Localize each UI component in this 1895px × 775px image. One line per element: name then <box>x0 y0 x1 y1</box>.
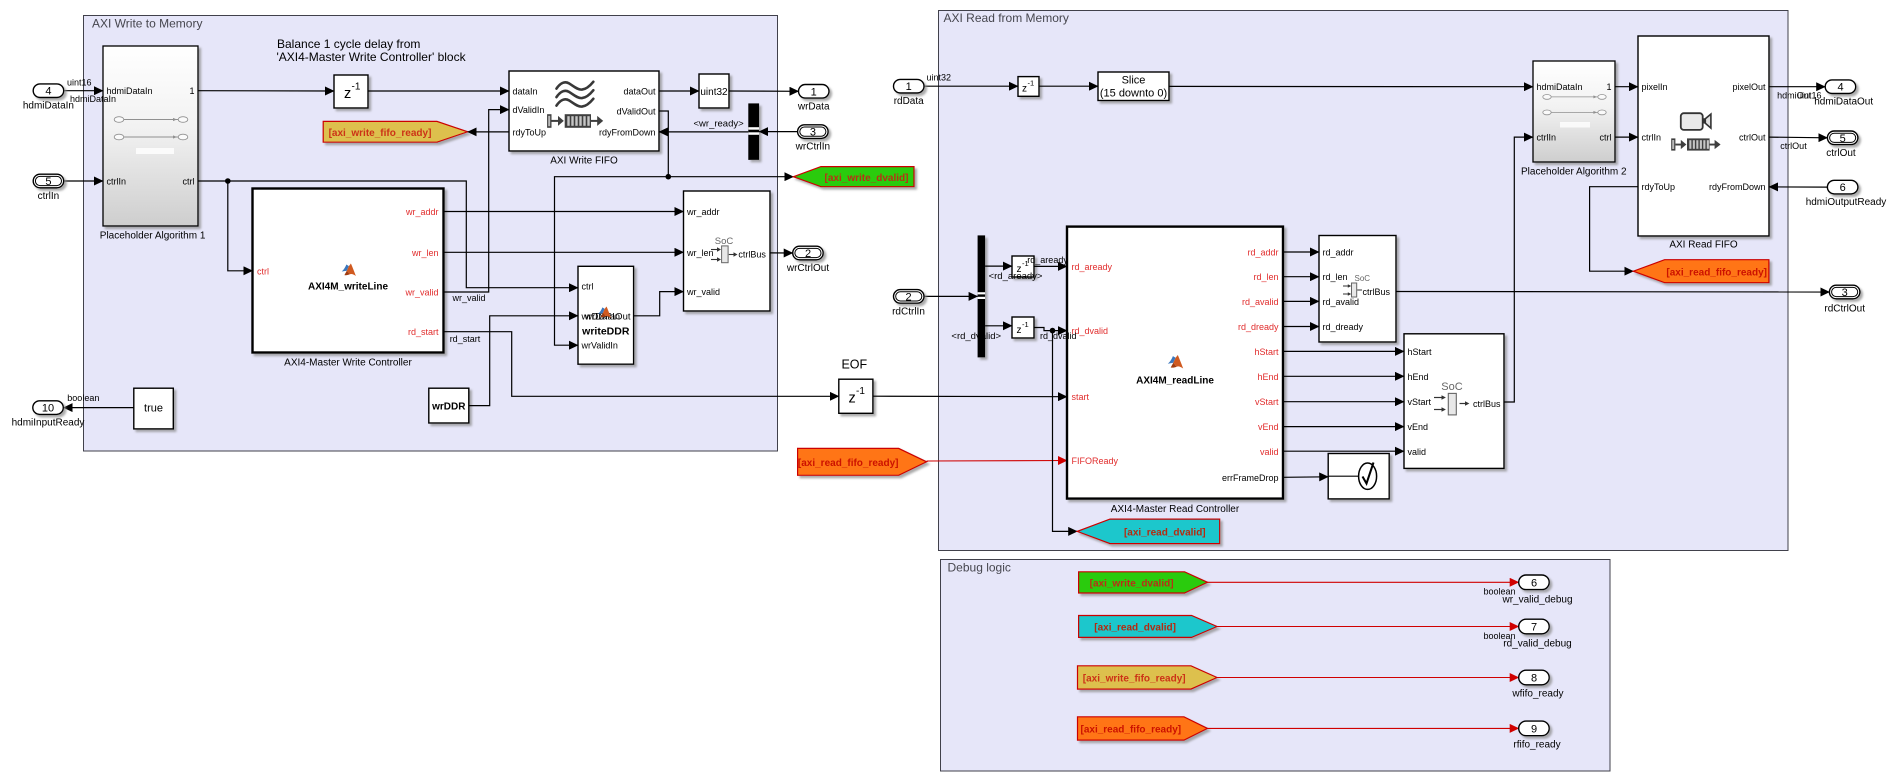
svg-text:4: 4 <box>45 86 51 98</box>
svg-text:valid: valid <box>1260 447 1279 457</box>
svg-text:rd_len: rd_len <box>1323 272 1348 282</box>
bus creator wrCtrl <box>684 191 771 311</box>
svg-text:AXI4-Master Write Controller: AXI4-Master Write Controller <box>284 357 412 368</box>
svg-text:[axi_write_fifo_ready]: [axi_write_fifo_ready] <box>1083 674 1186 685</box>
outport 7 rd_valid_debug <box>1503 619 1571 649</box>
svg-text:wr_valid_debug: wr_valid_debug <box>1501 594 1572 605</box>
outport 10 hdmiInputReady <box>12 401 85 429</box>
outport 8 wfifo_ready <box>1511 670 1563 699</box>
wire rd_addr to bus creator2 <box>1283 251 1319 253</box>
junction rd_dvalid <box>1050 328 1056 334</box>
svg-text:dValidOut: dValidOut <box>617 107 656 117</box>
label rd_aready selector <box>989 271 1043 282</box>
svg-text:rd_avalid: rd_avalid <box>1242 297 1279 307</box>
svg-text:dataIn: dataIn <box>513 87 538 97</box>
svg-text:rd_aready: rd_aready <box>1027 255 1068 265</box>
wire Placeholder1 out1 to Delay1 <box>198 90 334 92</box>
svg-text:true: true <box>144 403 163 415</box>
svg-text:rd_addr: rd_addr <box>1323 247 1354 257</box>
wire vEnd to bus creator3 <box>1283 426 1404 428</box>
svg-text:8: 8 <box>1531 673 1537 685</box>
svg-text:Debug logic: Debug logic <box>948 561 1011 575</box>
block writeDDR <box>578 266 634 364</box>
svg-text:wr_addr: wr_addr <box>405 207 439 217</box>
svg-text:AXI Read FIFO: AXI Read FIFO <box>1669 239 1738 250</box>
svg-text:z: z <box>1022 84 1027 95</box>
svg-text:Placeholder Algorithm 1: Placeholder Algorithm 1 <box>100 230 206 241</box>
svg-text:2: 2 <box>805 248 811 260</box>
area Debug logic <box>941 560 1611 772</box>
svg-text:ctrlIn: ctrlIn <box>107 177 127 187</box>
svg-text:6: 6 <box>1840 182 1846 194</box>
svg-text:wrDDR: wrDDR <box>431 402 466 413</box>
label rd_dvalid selector <box>951 331 1001 342</box>
svg-text:hEnd: hEnd <box>1408 372 1429 382</box>
wire FIFO ctrlOut to outport5 <box>1769 136 1827 139</box>
wire errFrameDrop to check block <box>1283 476 1328 479</box>
svg-text:rd_dready: rd_dready <box>1238 322 1279 332</box>
svg-text:10: 10 <box>42 403 54 415</box>
goto tag [axi_read_fifo_ready] left <box>798 448 927 475</box>
wire Z1b to readLine rd_dvalid <box>1034 328 1067 331</box>
inport 3 wrCtrlIn <box>795 125 830 153</box>
from tag [axi_write_fifo_ready] debug <box>1078 666 1218 689</box>
wire delay to Slice <box>1039 85 1098 87</box>
svg-text:2: 2 <box>905 291 911 303</box>
svg-text:vStart: vStart <box>1255 397 1279 407</box>
bus creator rdCtrl <box>1319 236 1396 343</box>
label uint32 (read) <box>927 72 952 82</box>
wire hEnd to bus creator3 <box>1283 375 1404 377</box>
svg-text:rd_dready: rd_dready <box>1323 322 1364 332</box>
goto wrDDR <box>429 388 469 423</box>
label rd_dvalid (black) <box>1040 331 1077 341</box>
svg-text:SoC: SoC <box>1441 381 1462 393</box>
svg-text:[axi_read_fifo_ready]: [axi_read_fifo_ready] <box>1666 267 1767 278</box>
block Placeholder Algorithm 2 <box>1521 61 1627 178</box>
svg-text:FIFOReady: FIFOReady <box>1072 456 1119 466</box>
goto tag [axi_write_fifo_ready] <box>323 121 468 142</box>
svg-text:hStart: hStart <box>1254 347 1279 357</box>
wire ctrl branch to writeDDR ctrl <box>228 181 578 288</box>
svg-text:wr_valid: wr_valid <box>452 293 486 303</box>
delay EOF z-1 <box>839 379 873 413</box>
svg-text:vEnd: vEnd <box>1258 422 1279 432</box>
svg-text:wfifo_ready: wfifo_ready <box>1511 689 1563 700</box>
delay z-1 (read, small) <box>1018 77 1039 97</box>
label ctrlOut signal <box>1780 141 1807 151</box>
svg-text:SoC: SoC <box>1355 274 1371 283</box>
svg-text:uint16: uint16 <box>67 78 92 88</box>
svg-text:vEnd: vEnd <box>1408 422 1429 432</box>
svg-text:ctrlBus: ctrlBus <box>1473 399 1501 409</box>
area AXI Write to Memory <box>84 16 778 452</box>
svg-text:dValidIn: dValidIn <box>513 105 545 115</box>
wire rd_dready to bus creator2 <box>1283 326 1319 328</box>
svg-text:ctrl: ctrl <box>1600 133 1612 143</box>
svg-text:<rd_dvalid>: <rd_dvalid> <box>951 331 1001 342</box>
svg-text:-1: -1 <box>1028 79 1035 88</box>
svg-text:<rd_aready>: <rd_aready> <box>989 271 1043 282</box>
label wr_ready <box>694 119 745 130</box>
svg-text:AXI Write to Memory: AXI Write to Memory <box>92 17 202 31</box>
svg-text:AXI Read from Memory: AXI Read from Memory <box>944 11 1069 25</box>
svg-text:wrCtrlOut: wrCtrlOut <box>786 263 829 274</box>
svg-text:uint32: uint32 <box>927 72 952 82</box>
svg-text:vStart: vStart <box>1408 397 1432 407</box>
junction dvalid <box>666 174 672 180</box>
label boolean wr <box>1484 587 1516 597</box>
inport 5 ctrlIn <box>33 174 64 202</box>
delay Z-1 (balance) <box>334 75 368 108</box>
wire inport1 rdData to delay <box>924 85 1018 87</box>
wire bus creator2 to outport3 rdCtrlOut <box>1396 291 1829 294</box>
svg-text:Balance 1 cycle delay from: Balance 1 cycle delay from <box>277 37 420 51</box>
svg-text:ctrlIn: ctrlIn <box>1537 133 1557 143</box>
bus creator vid <box>1404 334 1504 469</box>
svg-text:wr_valid: wr_valid <box>686 287 720 297</box>
svg-text:ctrlBus: ctrlBus <box>738 250 766 260</box>
svg-text:rd_start: rd_start <box>450 334 481 344</box>
svg-text:errFrameDrop: errFrameDrop <box>1222 473 1279 483</box>
svg-text:ctrlBus: ctrlBus <box>1363 287 1391 297</box>
inport 4 hdmiDataIn <box>23 84 74 112</box>
check block errFrameDrop <box>1328 454 1389 499</box>
svg-text:1: 1 <box>811 86 817 98</box>
svg-text:rdCtrlOut: rdCtrlOut <box>1824 304 1865 315</box>
svg-text:AXI4-Master Read Controller: AXI4-Master Read Controller <box>1111 504 1240 515</box>
wire FIFO rdyToUp to tag <box>468 131 509 133</box>
wire to outport6 (red) <box>1208 581 1519 583</box>
wire Placeholder2 out1 to FIFO pixelIn <box>1615 86 1638 88</box>
svg-text:wrValidIn: wrValidIn <box>581 341 618 351</box>
svg-text:5: 5 <box>45 176 51 188</box>
svg-text:rd_addr: rd_addr <box>1247 248 1278 258</box>
svg-text:ctrl: ctrl <box>183 177 195 187</box>
junction ctrl <box>225 178 231 184</box>
svg-text:rd_dvalid: rd_dvalid <box>1072 326 1109 336</box>
wire Z1a to readLine rd_aready <box>1034 265 1067 267</box>
constant true <box>134 388 174 429</box>
outport 9 rfifo_ready <box>1513 721 1560 750</box>
svg-text:rdCtrlIn: rdCtrlIn <box>892 306 925 317</box>
svg-text:z: z <box>344 86 351 102</box>
svg-text:-1: -1 <box>352 82 361 93</box>
svg-text:[axi_read_dvalid]: [axi_read_dvalid] <box>1124 528 1206 539</box>
svg-text:EOF: EOF <box>841 357 867 371</box>
wire wr_valid to FIFO dValidIn <box>444 110 510 292</box>
svg-text:6: 6 <box>1531 577 1537 589</box>
svg-text:boolean: boolean <box>67 393 99 403</box>
block uint32 conversion <box>699 74 729 108</box>
svg-text:hdmiDataOut: hdmiDataOut <box>1814 97 1873 108</box>
svg-text:ctrlOut: ctrlOut <box>1739 133 1766 143</box>
svg-text:AXI Write FIFO: AXI Write FIFO <box>550 156 618 167</box>
svg-text:rdyToUp: rdyToUp <box>1642 182 1676 192</box>
wire writeDDR out to bus creator wr_valid <box>634 292 684 316</box>
svg-text:7: 7 <box>1531 622 1537 634</box>
svg-text:<wr_ready>: <wr_ready> <box>694 119 745 130</box>
svg-text:ctrl: ctrl <box>582 282 594 292</box>
svg-text:hdmiInputReady: hdmiInputReady <box>12 418 85 429</box>
svg-text:rd_avalid: rd_avalid <box>1323 297 1360 307</box>
svg-text:[axi_write_dvalid]: [axi_write_dvalid] <box>825 173 909 184</box>
svg-text:4: 4 <box>1837 82 1843 94</box>
svg-text:1: 1 <box>906 81 912 93</box>
svg-text:dataOut: dataOut <box>623 87 656 97</box>
wire FIFO dataOut to uint32 <box>659 90 699 92</box>
goto tag [axi_write_dvalid] <box>793 167 914 187</box>
svg-text:-1: -1 <box>856 386 865 397</box>
svg-text:5: 5 <box>1840 133 1846 145</box>
wire EOF delay to readLine start <box>873 395 1067 398</box>
svg-text:hdmiDataIn: hdmiDataIn <box>23 101 74 112</box>
wire branch dvalid to writeDDR wrValidIn <box>555 177 669 346</box>
svg-text:rdyFromDown: rdyFromDown <box>1709 182 1766 192</box>
wire inport2 rdCtrlIn to bus selector <box>924 295 978 297</box>
svg-text:pixelIn: pixelIn <box>1642 82 1668 92</box>
wire inport3 to bus selector <box>759 131 798 133</box>
svg-text:AXI4M_writeLine: AXI4M_writeLine <box>308 282 388 293</box>
svg-text:rdyFromDown: rdyFromDown <box>599 127 656 137</box>
block AXI4-Master Write Controller <box>253 189 444 369</box>
wire hStart to bus creator3 <box>1283 350 1404 352</box>
wire rd_avalid to bus creator2 <box>1283 300 1319 302</box>
label uint16 <box>67 78 92 88</box>
wire ctrl junction to AXI4M ctrl <box>198 181 253 271</box>
block Slice <box>1098 72 1169 101</box>
svg-text:9: 9 <box>1531 723 1537 735</box>
svg-text:ctrlIn: ctrlIn <box>38 191 60 202</box>
svg-text:wr_addr: wr_addr <box>686 207 720 217</box>
wire bus creator to outport2 <box>770 252 793 254</box>
goto tag [axi_read_dvalid] <box>1077 519 1220 544</box>
outport 5 ctrlOut <box>1826 131 1858 159</box>
svg-text:rdyToUp: rdyToUp <box>513 127 547 137</box>
outport 1 wrData <box>797 85 830 113</box>
svg-text:[axi_read_dvalid]: [axi_read_dvalid] <box>1094 623 1176 634</box>
block AXI Write FIFO <box>509 71 659 167</box>
wire inport6 to FIFO rdyFromDown <box>1769 186 1827 188</box>
svg-text:z: z <box>849 391 856 407</box>
svg-text:ctrlOut: ctrlOut <box>1780 141 1807 151</box>
block Placeholder Algorithm 1 <box>100 46 206 241</box>
svg-text:3: 3 <box>1842 287 1848 299</box>
labels hdmiOut uint16 overlap <box>1777 90 1821 100</box>
label boolean <box>67 393 99 403</box>
wire FIFO dValidOut to goto (down and right) <box>659 111 793 177</box>
outport 2 wrCtrlOut <box>786 246 829 274</box>
svg-text:uint32: uint32 <box>700 87 728 98</box>
wire tag to FIFOReady (red) <box>927 460 1067 463</box>
wire vStart to bus creator3 <box>1283 401 1404 403</box>
goto tag [axi_read_fifo_ready] right <box>1633 260 1769 283</box>
svg-text:wr_len: wr_len <box>411 248 439 258</box>
outport 3 rdCtrlOut <box>1824 285 1865 314</box>
svg-text:wr_len: wr_len <box>686 248 714 258</box>
inport 6 hdmiOutputReady <box>1806 180 1887 208</box>
wire Delay1 to FIFO dataIn <box>368 90 509 92</box>
wire to outport8 (red) <box>1217 677 1519 679</box>
svg-text:wrData: wrData <box>797 101 830 112</box>
label boolean rd <box>1484 631 1516 641</box>
from tag [axi_read_fifo_ready] debug <box>1078 717 1208 740</box>
svg-text:[axi_write_fifo_ready]: [axi_write_fifo_ready] <box>329 128 432 139</box>
svg-text:ctrlOut: ctrlOut <box>1826 148 1856 159</box>
wire FIFO rdyToUp to orange goto <box>1590 187 1638 272</box>
svg-text:hdmiDataIn: hdmiDataIn <box>1537 82 1583 92</box>
svg-text:ctrlIn: ctrlIn <box>1642 133 1662 143</box>
label hdmiDataIn signal <box>70 94 116 104</box>
block AXI4-Master Read Controller <box>1067 227 1283 516</box>
wire wr_len to bus creator <box>444 251 684 253</box>
delay Z1a rd_aready <box>1012 256 1034 277</box>
label rd_start <box>450 334 481 344</box>
svg-text:Placeholder Algorithm 2: Placeholder Algorithm 2 <box>1521 167 1627 178</box>
svg-text:rdData: rdData <box>894 96 924 107</box>
svg-text:1: 1 <box>1606 82 1611 92</box>
svg-text:rd_len: rd_len <box>1253 272 1278 282</box>
wire rd_len to bus creator2 <box>1283 276 1319 278</box>
svg-text:[axi_write_dvalid]: [axi_write_dvalid] <box>1090 578 1174 589</box>
from tag [axi_read_dvalid] debug <box>1079 616 1217 638</box>
delay Z1b rd_dvalid <box>1012 317 1034 338</box>
svg-text:rd_start: rd_start <box>408 327 439 337</box>
wire uint32 to outport1 <box>729 90 799 92</box>
wire FIFO pixelOut to outport4 <box>1769 86 1825 88</box>
wire inport5 to Placeholder1 <box>64 180 103 182</box>
svg-text:Slice: Slice <box>1122 75 1146 87</box>
annotation Balance 1 cycle delay <box>277 37 467 64</box>
svg-text:pixelOut: pixelOut <box>1732 82 1766 92</box>
svg-text:[axi_read_fifo_ready]: [axi_read_fifo_ready] <box>798 458 899 469</box>
svg-text:hdmiOutputReady: hdmiOutputReady <box>1806 197 1887 208</box>
wire bus selector out2 to delay Z1b <box>985 325 1012 327</box>
svg-text:hdmiDataIn: hdmiDataIn <box>70 94 116 104</box>
svg-text:[axi_read_fifo_ready]: [axi_read_fifo_ready] <box>1080 724 1181 735</box>
wire bus creator3 to Placeholder2 ctrlIn <box>1504 137 1533 402</box>
svg-text:3: 3 <box>810 127 816 139</box>
svg-text:rfifo_ready: rfifo_ready <box>1513 739 1560 750</box>
label rd_aready (black) <box>1027 255 1068 265</box>
svg-text:'AXI4-Master Write Controller': 'AXI4-Master Write Controller' block <box>277 50 467 64</box>
wire inport4 to Placeholder1 <box>64 90 103 92</box>
svg-text:valid: valid <box>1408 447 1427 457</box>
bus selector wr_ready <box>748 103 759 159</box>
wire to outport7 (red) <box>1217 626 1519 628</box>
outport 4 hdmiDataOut <box>1814 80 1873 108</box>
label wr_valid <box>452 293 486 303</box>
svg-text:SoC: SoC <box>715 236 734 247</box>
block AXI Read FIFO <box>1638 36 1769 250</box>
svg-text:wrCtrlIn: wrCtrlIn <box>795 142 830 153</box>
svg-text:start: start <box>1072 392 1090 402</box>
wire rd_start to EOF delay <box>444 332 839 397</box>
wire bus selector out1 to delay Z1a <box>985 265 1012 267</box>
from tag [axi_write_dvalid] debug <box>1079 572 1208 593</box>
svg-text:hEnd: hEnd <box>1257 372 1278 382</box>
inport 1 rdData <box>894 79 925 107</box>
wire valid to bus creator3 <box>1283 450 1404 452</box>
label EOF <box>841 357 867 371</box>
svg-text:-1: -1 <box>1022 320 1029 329</box>
bus selector rdCtrl <box>978 235 986 357</box>
svg-text:rd_aready: rd_aready <box>1072 262 1113 272</box>
svg-text:1: 1 <box>189 86 194 96</box>
inport 2 rdCtrlIn <box>892 290 925 318</box>
wire wr_addr to bus creator <box>444 211 684 213</box>
svg-text:z: z <box>1017 325 1022 336</box>
svg-text:hStart: hStart <box>1408 347 1433 357</box>
wire Slice to Placeholder2 hdmiDataIn <box>1169 85 1533 87</box>
wire Placeholder2 ctrl to FIFO ctrlIn <box>1615 136 1638 138</box>
area AXI Read from Memory <box>939 11 1789 551</box>
wire branch to cyan goto <box>1053 331 1078 532</box>
outport 6 wr_valid_debug <box>1501 575 1572 605</box>
svg-text:rd_dvalid: rd_dvalid <box>1040 331 1077 341</box>
wire wrDDR to writeDDR <box>469 316 578 406</box>
wire to outport9 (red) <box>1208 727 1519 729</box>
wire true to outport10 <box>64 407 134 409</box>
svg-text:wr_valid: wr_valid <box>404 288 438 298</box>
svg-text:ctrl: ctrl <box>257 266 269 276</box>
svg-text:AXI4M_readLine: AXI4M_readLine <box>1136 376 1214 387</box>
svg-text:writeDDR: writeDDR <box>581 326 630 338</box>
svg-text:rd_valid_debug: rd_valid_debug <box>1503 639 1571 650</box>
wire bus selector to FIFO rdyFromDown <box>659 131 748 133</box>
svg-text:(15 downto 0): (15 downto 0) <box>1100 88 1167 100</box>
